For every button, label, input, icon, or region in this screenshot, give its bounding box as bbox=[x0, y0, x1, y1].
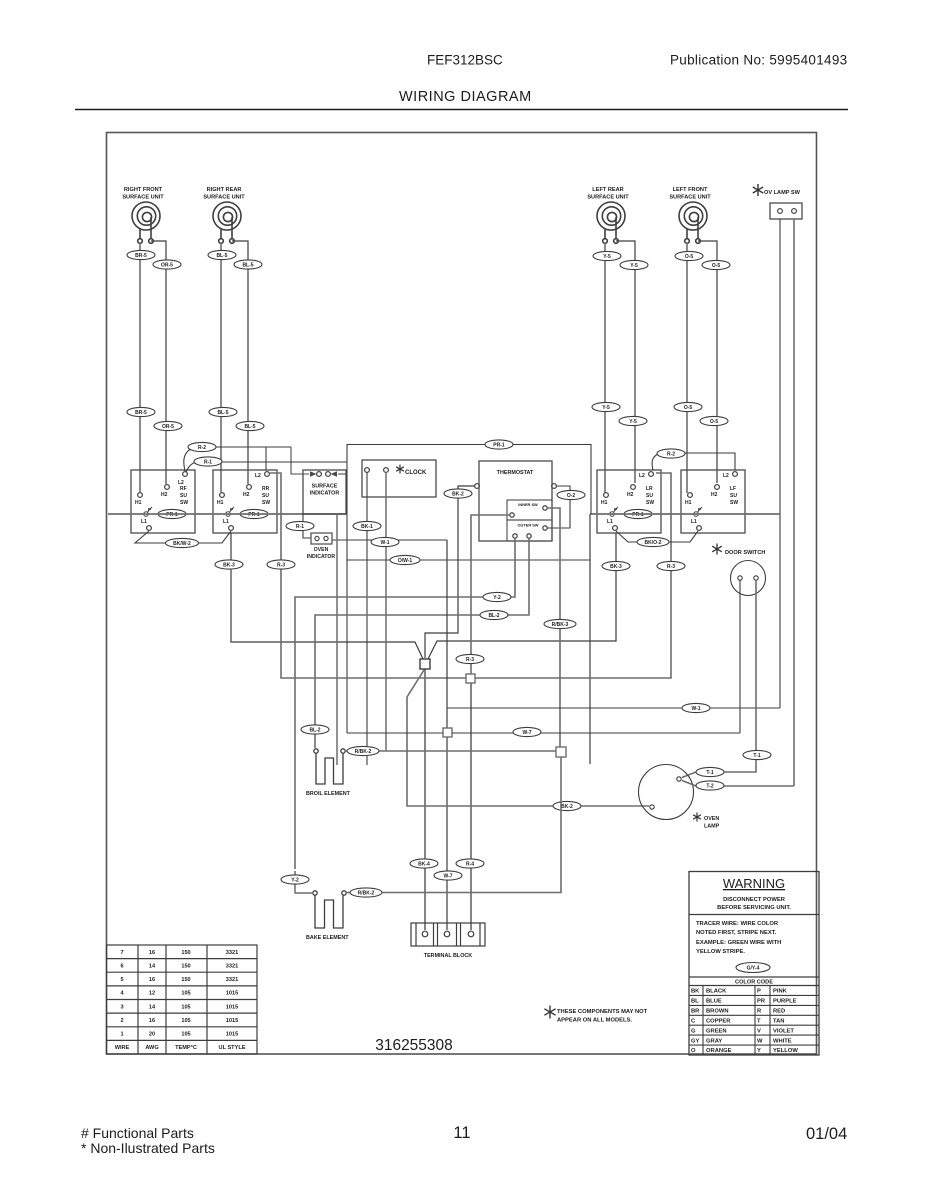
svg-text:FEF312BSC: FEF312BSC bbox=[427, 53, 503, 68]
svg-text:BEFORE SERVICING UNIT.: BEFORE SERVICING UNIT. bbox=[717, 905, 791, 911]
svg-text:W: W bbox=[757, 1038, 763, 1044]
title rule bbox=[75, 109, 848, 111]
svg-text:BL-5: BL-5 bbox=[216, 253, 227, 259]
svg-text:H2: H2 bbox=[243, 492, 250, 498]
svg-text:BK/O-2: BK/O-2 bbox=[645, 540, 662, 546]
label R/BK-2 bake bbox=[350, 888, 382, 897]
bake element bbox=[313, 891, 346, 928]
svg-text:TRACER WIRE: WIRE COLOR: TRACER WIRE: WIRE COLOR bbox=[696, 921, 779, 927]
wire R-3 left riser bbox=[270, 473, 466, 678]
label O-2 bbox=[557, 490, 585, 499]
svg-text:SURFACE UNIT: SURFACE UNIT bbox=[669, 195, 711, 201]
wire LF H1 bbox=[686, 243, 688, 493]
wire W-1 lamp sw bbox=[447, 707, 780, 709]
svg-text:12: 12 bbox=[149, 991, 155, 997]
svg-text:OR-5: OR-5 bbox=[161, 262, 173, 268]
svg-text:P: P bbox=[614, 507, 617, 512]
svg-text:BROIL ELEMENT: BROIL ELEMENT bbox=[306, 791, 351, 797]
switch RF SU SW bbox=[131, 470, 195, 533]
svg-text:T: T bbox=[757, 1019, 761, 1025]
label R-3 right bbox=[657, 561, 685, 570]
wire door sw 1 bbox=[739, 580, 741, 733]
svg-text:BL-5: BL-5 bbox=[217, 410, 228, 416]
wire R main bbox=[470, 678, 472, 930]
svg-text:H1: H1 bbox=[601, 500, 608, 506]
wire RR H1 bbox=[220, 243, 222, 492]
label R-1 bbox=[194, 457, 222, 466]
wire P bus right PR-1 bbox=[590, 513, 780, 515]
wire P riser tail bbox=[589, 514, 591, 764]
thermostat bbox=[475, 461, 557, 541]
svg-text:O-2: O-2 bbox=[567, 493, 576, 499]
svg-text:CLOCK: CLOCK bbox=[405, 470, 427, 476]
switch LR SU SW bbox=[597, 470, 661, 533]
svg-text:THESE COMPONENTS MAY NOT: THESE COMPONENTS MAY NOT bbox=[557, 1009, 648, 1015]
svg-text:L1: L1 bbox=[141, 519, 147, 525]
label O-5 bbox=[675, 251, 703, 260]
svg-text:SU: SU bbox=[646, 493, 653, 499]
label Y-5 bbox=[593, 251, 621, 260]
svg-text:INNER SW: INNER SW bbox=[518, 502, 538, 507]
wire W-7 door bbox=[347, 732, 740, 734]
svg-text:H2: H2 bbox=[711, 492, 718, 498]
svg-text:APPEAR ON ALL MODELS.: APPEAR ON ALL MODELS. bbox=[557, 1018, 632, 1024]
svg-text:R-4: R-4 bbox=[466, 861, 474, 867]
junction square BK bbox=[420, 659, 430, 669]
svg-text:WIRING DIAGRAM: WIRING DIAGRAM bbox=[399, 89, 532, 105]
svg-text:O-5: O-5 bbox=[712, 263, 721, 269]
svg-text:L2: L2 bbox=[639, 473, 645, 479]
svg-text:1015: 1015 bbox=[226, 991, 238, 997]
svg-text:150: 150 bbox=[181, 977, 190, 983]
svg-text:Y-2: Y-2 bbox=[493, 595, 501, 601]
label Y-2 bbox=[483, 592, 511, 601]
label BK/W-2 bbox=[166, 538, 199, 547]
svg-text:R-1: R-1 bbox=[296, 524, 304, 530]
svg-text:2: 2 bbox=[120, 1018, 123, 1024]
label BL-5 mid bbox=[209, 407, 237, 416]
label W-7 bbox=[513, 727, 541, 736]
label T-2 bbox=[696, 781, 724, 790]
svg-text:W-1: W-1 bbox=[380, 540, 389, 546]
label BL-5 bbox=[208, 250, 236, 259]
svg-text:TEMP°C: TEMP°C bbox=[175, 1045, 197, 1051]
svg-text:T-1: T-1 bbox=[753, 753, 760, 759]
svg-text:H1: H1 bbox=[685, 500, 692, 506]
svg-text:OR-5: OR-5 bbox=[162, 424, 174, 430]
svg-text:PR-1: PR-1 bbox=[493, 442, 505, 448]
wire R-2 bbox=[184, 447, 266, 471]
svg-text:R-2: R-2 bbox=[198, 445, 206, 451]
svg-text:SU: SU bbox=[262, 493, 269, 499]
svg-text:L1: L1 bbox=[223, 519, 229, 525]
svg-text:V: V bbox=[757, 1028, 761, 1034]
svg-text:BK-1: BK-1 bbox=[361, 524, 373, 530]
wire O/W-1 bbox=[347, 559, 590, 561]
svg-text:PR-1: PR-1 bbox=[166, 512, 178, 518]
svg-text:BLUE: BLUE bbox=[706, 999, 722, 1005]
svg-text:PR-1: PR-1 bbox=[248, 512, 260, 518]
svg-text:Y-5: Y-5 bbox=[629, 419, 637, 425]
svg-text:SURFACE: SURFACE bbox=[312, 484, 338, 490]
svg-text:3321: 3321 bbox=[226, 977, 238, 983]
wire BK/O-2 bbox=[616, 531, 698, 542]
label R-1 b bbox=[286, 521, 314, 530]
wire BK-2 bbox=[425, 486, 475, 658]
wire BK-3 left riser bbox=[231, 533, 423, 659]
wire RR H2 bbox=[232, 241, 248, 484]
svg-text:16: 16 bbox=[149, 950, 155, 956]
svg-text:TERMINAL BLOCK: TERMINAL BLOCK bbox=[424, 953, 473, 959]
svg-text:T-1: T-1 bbox=[706, 770, 713, 776]
svg-text:O/W-1: O/W-1 bbox=[398, 558, 413, 564]
label O/W-1 bbox=[390, 555, 420, 564]
label Y-5 b bbox=[620, 260, 648, 269]
color code table bbox=[689, 986, 819, 1056]
svg-text:COLOR CODE: COLOR CODE bbox=[735, 980, 773, 986]
clock bbox=[362, 460, 436, 497]
svg-text:R-3: R-3 bbox=[466, 657, 474, 663]
svg-text:Y: Y bbox=[757, 1048, 761, 1054]
wire W-1 oven ind bbox=[332, 539, 447, 541]
svg-text:T-2: T-2 bbox=[706, 783, 713, 789]
svg-text:316255308: 316255308 bbox=[375, 1037, 453, 1054]
svg-text:THERMOSTAT: THERMOSTAT bbox=[497, 470, 534, 476]
svg-text:YELLOW STRIPE.: YELLOW STRIPE. bbox=[696, 949, 745, 955]
svg-text:1015: 1015 bbox=[226, 1004, 238, 1010]
wire R-1 oven ind bbox=[303, 513, 311, 538]
wire R-2 to surface ind bbox=[266, 446, 291, 448]
svg-text:16: 16 bbox=[149, 977, 155, 983]
label T-1 bbox=[743, 750, 771, 759]
svg-text:BR-5: BR-5 bbox=[135, 253, 147, 259]
label BL-5 mid b bbox=[236, 421, 264, 430]
svg-text:P: P bbox=[148, 507, 151, 512]
svg-text:BL: BL bbox=[691, 999, 699, 1005]
svg-text:R-1: R-1 bbox=[204, 459, 212, 465]
wire P riser lower bbox=[346, 462, 348, 733]
svg-text:SU: SU bbox=[180, 493, 187, 499]
label Y-5 mid b bbox=[619, 416, 647, 425]
wire P riser upper bbox=[347, 445, 591, 515]
door switch bbox=[712, 544, 765, 596]
svg-text:H1: H1 bbox=[135, 500, 142, 506]
broil element bbox=[314, 749, 345, 784]
svg-text:OV LAMP SW: OV LAMP SW bbox=[764, 190, 801, 196]
label R/BK-2 broil bbox=[347, 746, 379, 755]
label R-2 bbox=[188, 442, 216, 451]
label R-2 right bbox=[657, 449, 685, 458]
svg-text:RF: RF bbox=[180, 486, 187, 492]
svg-text:AWG: AWG bbox=[145, 1045, 158, 1051]
label R-4 bbox=[456, 859, 484, 868]
wire R-1 bbox=[186, 462, 347, 472]
svg-text:H2: H2 bbox=[161, 492, 168, 498]
left front surface unit bbox=[679, 202, 707, 243]
svg-text:SURFACE UNIT: SURFACE UNIT bbox=[203, 195, 245, 201]
svg-text:# Functional Parts: # Functional Parts bbox=[81, 1125, 194, 1141]
svg-text:H2: H2 bbox=[627, 492, 634, 498]
label BK-4 bbox=[410, 859, 438, 868]
label R-3 mid bbox=[456, 654, 484, 663]
svg-text:NOTED FIRST, STRIPE NEXT.: NOTED FIRST, STRIPE NEXT. bbox=[696, 930, 777, 936]
svg-text:105: 105 bbox=[181, 1032, 190, 1038]
svg-text:W-1: W-1 bbox=[691, 706, 700, 712]
wire BK lamp branch bbox=[407, 670, 649, 806]
svg-text:3321: 3321 bbox=[226, 963, 238, 969]
svg-text:ORANGE: ORANGE bbox=[706, 1048, 732, 1054]
svg-text:BK-3: BK-3 bbox=[610, 564, 622, 570]
wire RF H1 bbox=[139, 243, 141, 492]
svg-text:L2: L2 bbox=[723, 473, 729, 479]
svg-text:INDICATOR: INDICATOR bbox=[310, 491, 340, 497]
svg-text:Publication No: 5995401493: Publication No: 5995401493 bbox=[670, 53, 847, 68]
wire LF H2 bbox=[698, 241, 717, 483]
label BK-1 bbox=[353, 521, 381, 530]
svg-text:P: P bbox=[698, 507, 701, 512]
right front surface unit bbox=[132, 202, 160, 243]
svg-text:LR: LR bbox=[646, 486, 653, 492]
label BK-3 right bbox=[602, 561, 630, 570]
svg-text:7: 7 bbox=[120, 950, 123, 956]
svg-text:R/BK-2: R/BK-2 bbox=[358, 890, 375, 896]
svg-text:Y-5: Y-5 bbox=[630, 263, 638, 269]
left rear surface unit bbox=[597, 202, 625, 243]
svg-text:GREEN: GREEN bbox=[706, 1028, 727, 1034]
svg-text:105: 105 bbox=[181, 1018, 190, 1024]
wire bake R/BK-2 bbox=[346, 757, 561, 893]
svg-text:105: 105 bbox=[181, 991, 190, 997]
svg-text:L1: L1 bbox=[607, 519, 613, 525]
svg-text:YELLOW: YELLOW bbox=[773, 1048, 798, 1054]
surface indicator bbox=[291, 447, 347, 514]
oven lamp bbox=[639, 765, 694, 820]
svg-text:BL-5: BL-5 bbox=[244, 424, 255, 430]
wire BK-3 right riser bbox=[428, 533, 616, 659]
svg-text:LF: LF bbox=[730, 486, 736, 492]
svg-text:GRAY: GRAY bbox=[706, 1038, 722, 1044]
svg-text:DISCONNECT POWER: DISCONNECT POWER bbox=[723, 897, 786, 903]
wire clock BK-1 bbox=[366, 472, 368, 765]
wire Y-2 bbox=[295, 538, 515, 869]
svg-text:BROWN: BROWN bbox=[706, 1009, 729, 1015]
svg-text:P: P bbox=[230, 507, 233, 512]
svg-text:OUTER SW: OUTER SW bbox=[518, 523, 539, 528]
label W-1 b bbox=[682, 703, 710, 712]
switch RR SU SW bbox=[213, 470, 277, 533]
svg-text:5: 5 bbox=[120, 977, 123, 983]
svg-text:W-7: W-7 bbox=[443, 873, 452, 879]
svg-text:DOOR SWITCH: DOOR SWITCH bbox=[725, 550, 765, 556]
wire lamp T-2 bbox=[682, 781, 794, 787]
svg-text:L1: L1 bbox=[691, 519, 697, 525]
label O-5 mid b bbox=[700, 416, 728, 425]
svg-text:16: 16 bbox=[149, 1018, 155, 1024]
svg-text:O-5: O-5 bbox=[685, 254, 694, 260]
svg-text:R-3: R-3 bbox=[667, 564, 675, 570]
svg-text:O-5: O-5 bbox=[684, 405, 693, 411]
label BK-2 bbox=[444, 489, 472, 498]
svg-text:COPPER: COPPER bbox=[706, 1019, 731, 1025]
svg-text:PURPLE: PURPLE bbox=[773, 999, 797, 1005]
label BL-2 b bbox=[301, 725, 329, 734]
label R-3 left bbox=[267, 560, 295, 569]
svg-text:INDICATOR: INDICATOR bbox=[307, 554, 336, 560]
label OR-5 bbox=[153, 260, 181, 269]
wire R-3 right riser bbox=[475, 473, 671, 678]
label O-5 b bbox=[702, 260, 730, 269]
svg-text:LEFT FRONT: LEFT FRONT bbox=[673, 187, 708, 193]
wire LR H1 bbox=[604, 243, 606, 493]
label OR-5 mid bbox=[154, 421, 182, 430]
svg-text:BK-2: BK-2 bbox=[561, 804, 573, 810]
svg-text:O-5: O-5 bbox=[710, 419, 719, 425]
warning box bbox=[689, 872, 819, 1056]
svg-text:1015: 1015 bbox=[226, 1018, 238, 1024]
junction square R bbox=[466, 674, 475, 683]
svg-text:* Non-Ilustrated Parts: * Non-Ilustrated Parts bbox=[81, 1140, 215, 1156]
svg-text:LEFT REAR: LEFT REAR bbox=[592, 187, 623, 193]
svg-text:SW: SW bbox=[262, 500, 270, 506]
svg-text:6: 6 bbox=[120, 963, 123, 969]
svg-text:20: 20 bbox=[149, 1032, 155, 1038]
svg-text:G: G bbox=[691, 1028, 696, 1034]
svg-text:BL-2: BL-2 bbox=[309, 727, 320, 733]
svg-text:150: 150 bbox=[181, 963, 190, 969]
svg-text:OVEN: OVEN bbox=[314, 547, 329, 553]
svg-text:BK-3: BK-3 bbox=[223, 562, 235, 568]
svg-text:R/BK-3: R/BK-3 bbox=[552, 622, 569, 628]
svg-text:R-3: R-3 bbox=[277, 562, 285, 568]
wire gauge table bbox=[107, 945, 258, 1054]
svg-text:BLACK: BLACK bbox=[706, 989, 727, 995]
svg-text:P: P bbox=[757, 989, 761, 995]
svg-text:RIGHT FRONT: RIGHT FRONT bbox=[124, 187, 163, 193]
label BK/O-2 bbox=[637, 537, 669, 546]
svg-text:3: 3 bbox=[120, 1004, 123, 1010]
svg-text:11: 11 bbox=[453, 1124, 470, 1142]
wire BK main bbox=[424, 668, 426, 930]
wire LR H2 bbox=[616, 241, 635, 483]
label W-1 bbox=[371, 537, 399, 546]
label PR-1 top bbox=[485, 440, 513, 449]
svg-text:Y-5: Y-5 bbox=[602, 405, 610, 411]
label Y-2 bake bbox=[281, 875, 309, 884]
wire BL-2 bbox=[315, 538, 529, 748]
svg-text:RED: RED bbox=[773, 1009, 785, 1015]
wire BK/W-2 bbox=[135, 531, 231, 543]
label BK-3 left bbox=[215, 560, 243, 569]
wire clock 2 bbox=[385, 472, 387, 751]
svg-text:L2: L2 bbox=[255, 473, 261, 479]
svg-text:BL-5: BL-5 bbox=[242, 262, 253, 268]
svg-text:SURFACE UNIT: SURFACE UNIT bbox=[587, 195, 629, 201]
label BK-2 lamp bbox=[553, 801, 581, 810]
svg-text:BK-4: BK-4 bbox=[418, 861, 430, 867]
svg-text:RR: RR bbox=[262, 486, 270, 492]
wire R-2 right bbox=[652, 453, 735, 470]
wire lamp sw right bbox=[793, 219, 795, 786]
svg-text:TAN: TAN bbox=[773, 1019, 784, 1025]
label BR-5 bbox=[127, 250, 155, 259]
svg-text:PR-1: PR-1 bbox=[632, 512, 644, 518]
svg-text:BK/W-2: BK/W-2 bbox=[173, 541, 191, 547]
svg-text:PINK: PINK bbox=[773, 989, 788, 995]
svg-text:SW: SW bbox=[730, 500, 738, 506]
svg-text:OVEN: OVEN bbox=[704, 816, 719, 822]
wire door sw 2 T-1 bbox=[682, 580, 756, 778]
svg-text:SU: SU bbox=[730, 493, 737, 499]
wire lamp sw left W-1 bbox=[779, 219, 781, 708]
wire broil R/BK-2 bbox=[345, 750, 556, 752]
svg-text:BK: BK bbox=[691, 989, 700, 995]
oven indicator bbox=[311, 533, 332, 544]
wire O-2 bbox=[547, 486, 570, 528]
svg-text:3321: 3321 bbox=[226, 950, 238, 956]
wire thermostat R bbox=[471, 515, 510, 674]
svg-text:BAKE ELEMENT: BAKE ELEMENT bbox=[306, 935, 349, 941]
svg-text:RIGHT REAR: RIGHT REAR bbox=[207, 187, 242, 193]
label BL-2 bbox=[480, 610, 508, 619]
svg-text:R/BK-2: R/BK-2 bbox=[355, 749, 372, 755]
svg-text:H1: H1 bbox=[217, 500, 224, 506]
junction square RBK bbox=[556, 747, 566, 757]
svg-text:EXAMPLE: GREEN WIRE WITH: EXAMPLE: GREEN WIRE WITH bbox=[696, 940, 781, 946]
svg-text:G/Y-4: G/Y-4 bbox=[747, 965, 760, 971]
svg-text:PR: PR bbox=[757, 999, 766, 1005]
label BL-5 b bbox=[234, 260, 262, 269]
svg-text:VIOLET: VIOLET bbox=[773, 1028, 794, 1034]
svg-text:BR-5: BR-5 bbox=[135, 410, 147, 416]
svg-text:BK-2: BK-2 bbox=[452, 491, 464, 497]
svg-text:Y-2: Y-2 bbox=[291, 877, 299, 883]
label T-1 b bbox=[696, 767, 724, 776]
wire R/BK-3 bbox=[547, 508, 560, 747]
terminal block bbox=[411, 923, 485, 946]
svg-text:UL STYLE: UL STYLE bbox=[219, 1045, 246, 1051]
label BR-5 mid bbox=[127, 407, 155, 416]
wire Y-2 bake bbox=[295, 871, 313, 893]
svg-text:BR: BR bbox=[691, 1009, 700, 1015]
svg-text:1: 1 bbox=[120, 1032, 123, 1038]
svg-text:SURFACE UNIT: SURFACE UNIT bbox=[122, 195, 164, 201]
wire RF H2 bbox=[151, 241, 166, 484]
switch LF SU SW bbox=[681, 470, 745, 533]
svg-text:BL-2: BL-2 bbox=[488, 613, 499, 619]
svg-text:O: O bbox=[691, 1048, 696, 1054]
main diagram border frame bbox=[107, 133, 817, 1055]
svg-text:14: 14 bbox=[149, 1004, 156, 1010]
svg-text:01/04: 01/04 bbox=[806, 1125, 847, 1143]
svg-text:SW: SW bbox=[646, 500, 654, 506]
svg-text:SW: SW bbox=[180, 500, 188, 506]
junction square W bbox=[443, 728, 452, 737]
svg-text:14: 14 bbox=[149, 963, 156, 969]
wire W main bbox=[446, 540, 448, 930]
svg-text:GY: GY bbox=[691, 1038, 700, 1044]
label W-7 b bbox=[434, 871, 462, 880]
svg-text:WIRE: WIRE bbox=[115, 1045, 130, 1051]
label Y-5 mid bbox=[592, 402, 620, 411]
label R/BK-3 bbox=[544, 619, 576, 628]
svg-text:R-2: R-2 bbox=[667, 451, 675, 457]
note these components bbox=[544, 1006, 555, 1019]
oven lamp switch SW1 bbox=[753, 184, 802, 219]
label O-5 mid bbox=[674, 402, 702, 411]
wire x337 bbox=[336, 514, 338, 765]
svg-text:1015: 1015 bbox=[226, 1032, 238, 1038]
svg-text:WHITE: WHITE bbox=[773, 1038, 792, 1044]
